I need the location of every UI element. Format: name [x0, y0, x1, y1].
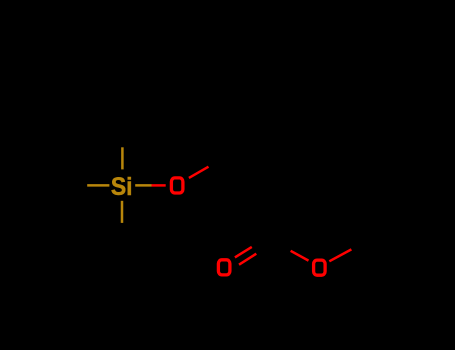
bond Si-CH3 left (gold half)	[87, 184, 109, 187]
atom label O (silyl ether)	[171, 178, 183, 193]
atom label O (carbonyl)	[218, 260, 230, 275]
bond Si-CH3 up (gold half)	[121, 147, 124, 169]
svg-text:Si: Si	[111, 173, 133, 201]
bond O-C ring (red half, up-right)	[189, 167, 209, 178]
bond C(=O)-O ester left (red half)	[291, 251, 309, 261]
bond Si-O gold half	[135, 184, 151, 187]
double bond C=O upper line (red half)	[235, 247, 252, 258]
bond Si-O red half	[152, 184, 166, 187]
bond Si-CH3 down (gold half)	[121, 201, 124, 223]
bond O-C(tBu) ester right (red half)	[329, 249, 351, 261]
double bond C=O lower line (red half)	[239, 254, 256, 265]
atom label O (ester)	[314, 260, 326, 275]
